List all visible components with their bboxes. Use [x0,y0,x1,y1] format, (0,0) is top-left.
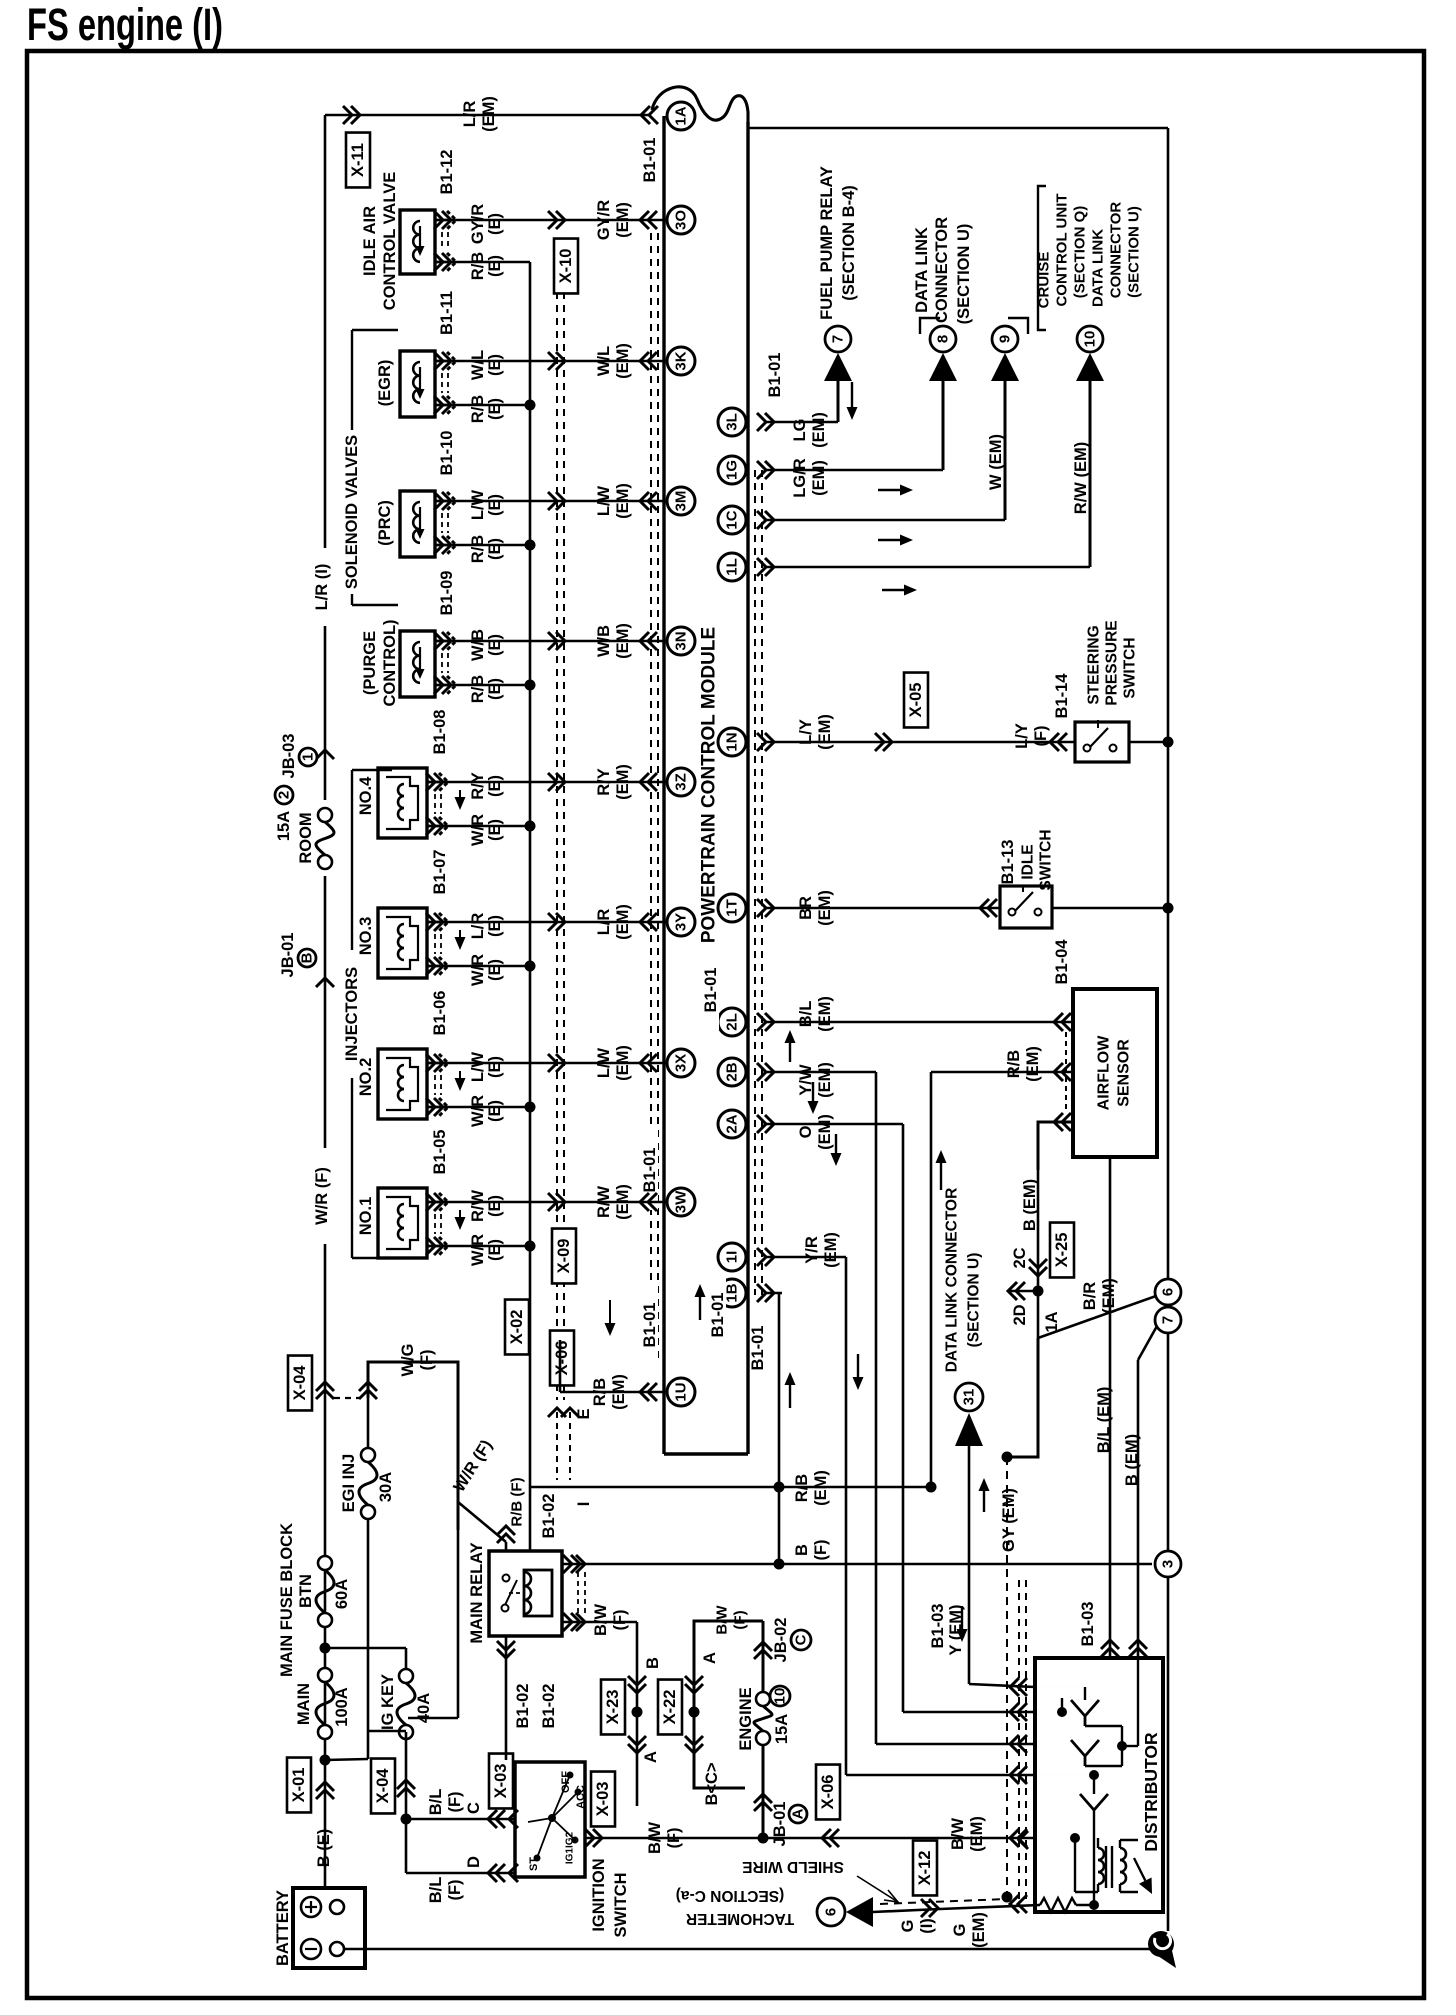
label R/Y (EM) NO.4 [595,764,632,800]
dashed shield GY (EM) [1006,1457,1008,1897]
svg-text:(EM): (EM) [816,996,834,1032]
main feed wire from battery (vertical) [324,115,327,1766]
svg-text:31: 31 [961,1389,978,1406]
wire GY/R (E) top [435,219,664,222]
wire B/L (F) to pin D [406,1872,515,1875]
wire L/R (EM) top [325,114,650,117]
connector box X-05 [904,673,928,728]
arrow dir 2L [785,1030,796,1062]
label GY/R (EM) [595,200,632,240]
chevrons BL dist [1101,1640,1119,1657]
relay feed diagonal W/R [458,1502,506,1551]
svg-text:R/B: R/B [469,252,487,281]
svg-text:R/B: R/B [1005,1050,1023,1079]
PCM left bus line [662,116,665,1454]
svg-text:CONTROL UNIT: CONTROL UNIT [1054,193,1071,306]
svg-text:NO.1: NO.1 [357,1197,375,1236]
distributor box [1035,1658,1163,1912]
wire engine fuse column [762,1621,765,1838]
arrow dir on YR [853,1354,864,1390]
label W (EM) [987,434,1005,490]
label 2C [1011,1247,1029,1268]
junction dot X-25 [1033,1286,1044,1297]
svg-text:D: D [465,1856,483,1868]
chevrons into bus NO.1 [640,1193,657,1211]
wire R/B (E) bottom [435,400,536,411]
ground symbol [1148,1931,1176,1968]
label Y (EM) [947,1604,965,1655]
svg-text:(E): (E) [486,678,504,700]
wire B (EM) X-25 column [1037,1170,1040,1291]
svg-text:R/W (EM): R/W (EM) [1072,442,1090,514]
chevron B/W at X-06 [822,1829,839,1847]
label A upper [701,1652,719,1664]
connector dashes NO.1 [435,1214,441,1234]
svg-text:10: 10 [772,1688,789,1705]
svg-text:W/L: W/L [469,350,487,380]
bracket cruise [1038,186,1046,330]
svg-text:CONTROL): CONTROL) [381,619,399,706]
junction dot GY bottom [1002,1892,1013,1903]
arrow direction DLC8 [878,485,913,496]
label B1-13 [999,840,1017,885]
wire R/B into airflow [931,1071,1073,1074]
svg-text:B1-01: B1-01 [702,968,720,1013]
chevrons X-22 upper [685,1676,703,1693]
svg-text:(SECTION U): (SECTION U) [966,1253,983,1348]
wire B/L pin 2L [757,1013,1073,1031]
label L/W (E) [469,489,504,520]
label W/L (E) [469,350,504,380]
svg-text:B1-06: B1-06 [431,991,449,1036]
svg-text:GY/R: GY/R [469,204,487,244]
label B upper [644,1657,662,1669]
svg-text:CRUISE: CRUISE [1036,252,1053,309]
svg-text:X-02: X-02 [508,1310,526,1345]
svg-text:X-04: X-04 [374,1768,392,1804]
wire L/W (E) NO.2 [427,1062,664,1065]
wire X-22 column [694,1621,763,1788]
label CRUISE CONTROL UNIT (SECTION Q) DATA LINK CONNECTOR (SECTION U) [1036,193,1143,308]
svg-text:W/R: W/R [469,954,487,986]
chevrons injector top NO.2 [426,1054,448,1072]
svg-text:B1-10: B1-10 [438,431,456,476]
ignition contact labels [528,1771,587,1871]
svg-text:A: A [790,1808,807,1819]
svg-text:INJECTORS: INJECTORS [343,967,361,1061]
wire to battery [324,1760,327,1888]
svg-text:(EM): (EM) [614,1045,632,1081]
wire DLC31 down [969,1446,1035,1687]
svg-text:X-05: X-05 [907,683,925,718]
PCM pin 3X [667,1049,695,1077]
svg-text:3L: 3L [724,413,741,431]
chevrons X-25 [1029,1259,1047,1276]
PCM bus bottom connector [664,1452,748,1455]
wire W/R (E) NO.2 [427,1102,536,1113]
label W/G (F) [399,1344,436,1377]
svg-text:R/B: R/B [793,1474,811,1503]
svg-text:R/B: R/B [591,1378,609,1407]
wire W/R (E) NO.1 [427,1241,536,1252]
label R/B (E) b [469,252,504,281]
svg-text:NO.4: NO.4 [357,776,375,815]
svg-text:MAIN RELAY: MAIN RELAY [468,1542,486,1643]
ignition output wire B/W (F) [585,1837,637,1840]
svg-text:1: 1 [300,753,317,761]
svg-text:1I: 1I [724,1251,741,1264]
svg-text:2L: 2L [724,1013,741,1031]
svg-text:JB-03: JB-03 [280,734,298,779]
label B1-14 [1053,673,1071,719]
svg-text:B: B [299,952,316,963]
mid chevrons NO.3 [548,913,565,931]
svg-text:B1-01: B1-01 [749,1326,767,1371]
chevrons X-23 upper [628,1676,646,1693]
connector box X-25 [1050,1223,1074,1278]
connector box X-23 [601,1680,625,1735]
svg-text:B1-01: B1-01 [766,353,784,398]
label B1-03 right [1079,1602,1097,1647]
svg-text:B1-03: B1-03 [929,1604,947,1649]
PCM pin 2A [718,1110,746,1138]
bracket DLC 8-9 [920,318,1028,334]
chevron G X-12 [921,1899,938,1917]
wire Y/W pin 2B [757,1063,876,1081]
arrow direction NO.3 [455,930,466,950]
label B1-01 [641,1130,659,1210]
bracket INJECTORS [352,770,392,1258]
wire EGI INJ feed [368,1362,458,1530]
injector NO.3 body [378,908,448,978]
svg-text:LG/R: LG/R [791,458,809,497]
mid chevrons (EGR) [548,352,565,370]
svg-text:1N: 1N [724,732,741,751]
label GY/R (E) [469,204,504,244]
PCM pin 1A [667,102,695,130]
label FUEL PUMP RELAY (SECTION B-4) [818,166,858,320]
wire 2A column down [903,1124,1035,1712]
connector X-04 link [316,1382,377,1399]
label BTN 60A [297,1574,351,1609]
svg-text:B1-02: B1-02 [540,1494,558,1539]
diagram title FS engine (I) [27,0,223,50]
svg-text:ENGINE: ENGINE [737,1687,755,1750]
arrow up near B1-01 [695,1284,706,1320]
svg-text:B/L: B/L [797,1001,815,1028]
svg-text:I: I [575,1502,593,1507]
label DISTRIBUTOR [1141,1732,1161,1852]
chevrons valve top (PRC) [434,492,456,510]
label B (EM) v [1123,1434,1141,1486]
label JB-01 (A) [771,1802,807,1847]
junction dot RB2 [926,1482,937,1493]
label R/B (F) inline [509,1477,526,1526]
chevrons valve bottom (EGR) [434,396,456,414]
svg-text:OFF: OFF [560,1771,572,1793]
label B1-01 [702,950,720,1030]
label AIRFLOW SENSOR [1096,1035,1133,1111]
arrow direction NO.1 [455,1210,466,1230]
svg-text:(F): (F) [611,1609,629,1630]
fuse MAIN 100A [316,1668,334,1739]
label B1-02 bottom a [514,1684,532,1729]
connector box X-01 [287,1758,311,1813]
label (PRC) [376,500,394,546]
PCM pin 3O [667,206,695,234]
label B1-04 [1053,939,1071,985]
chevrons JB column [754,1794,772,1811]
fuse ROOM 15A [312,800,338,876]
svg-text:B/L (EM): B/L (EM) [1095,1387,1113,1454]
label Y/W (EM) [797,1062,834,1098]
wire R/Y (E) NO.4 [427,781,664,784]
svg-text:W/R: W/R [469,1234,487,1266]
connector box X-04 lower [371,1759,395,1814]
svg-text:(EM): (EM) [810,412,828,448]
PCM right bus line [746,122,749,1454]
svg-text:(EM): (EM) [810,460,828,496]
svg-text:B/W: B/W [714,1605,731,1635]
arrow direction fuel pump [847,382,858,420]
connector dashes (PURGE CONTROL) [442,653,448,673]
chevrons into bus (PURGE CONTROL) [640,632,657,650]
label pin D [465,1856,483,1868]
svg-text:IG1IG2: IG1IG2 [565,1831,576,1864]
svg-text:IGNITION: IGNITION [590,1858,608,1931]
svg-text:B/L: B/L [427,1789,445,1816]
connector box X-06 lower [816,1765,840,1820]
solenoid valve (PRC) body [400,491,452,557]
svg-text:FUEL PUMP RELAY: FUEL PUMP RELAY [818,166,836,320]
label EGI INJ 30A [340,1454,395,1513]
pickup coil B [1071,1740,1099,1766]
label JB-01 (B) [279,933,316,978]
ignition switch box [515,1762,585,1877]
battery box [293,1888,365,1968]
svg-text:B/L: B/L [427,1877,445,1904]
svg-text:(EM): (EM) [614,764,632,800]
chevrons relay output bottom [563,1613,585,1631]
svg-text:B1-08: B1-08 [431,710,449,755]
svg-text:SWITCH: SWITCH [1122,637,1139,698]
svg-text:(EM): (EM) [816,1114,834,1150]
chevrons JB column upper [754,1642,772,1659]
label BR (EM) [797,890,834,926]
svg-text:NO.3: NO.3 [357,917,375,956]
svg-text:1G: 1G [724,460,741,480]
svg-text:R/W: R/W [595,1186,613,1219]
svg-text:60A: 60A [333,1579,351,1609]
label NO.1 [357,1197,375,1236]
svg-text:JB-02: JB-02 [772,1618,790,1663]
mid chevrons NO.2 [548,1054,565,1072]
svg-text:R/B: R/B [469,395,487,424]
svg-text:2D: 2D [1011,1304,1029,1325]
chevron on feed [316,750,334,759]
svg-text:X-25: X-25 [1053,1233,1071,1268]
wire airflow pin3 B(EM) [1038,1113,1073,1170]
relay output B (F) wire [562,1563,1152,1566]
label ENGINE 15A [737,1687,791,1750]
svg-text:IG KEY: IG KEY [379,1674,397,1730]
label B/L (F) lower [427,1877,464,1904]
svg-text:B1-14: B1-14 [1053,673,1071,719]
junction dot battery feed [320,1755,331,1766]
svg-text:(EGR): (EGR) [376,360,394,407]
svg-text:CONNECTOR: CONNECTOR [933,217,951,323]
pickup coil C [1080,1794,1108,1810]
label NO.2 [357,1058,375,1097]
svg-text:SENSOR: SENSOR [1116,1039,1133,1107]
connector box X-06 [550,1331,574,1386]
svg-text:8: 8 [935,335,952,343]
connector box X-03 left [489,1754,513,1809]
triangle DLC31 [955,1413,983,1446]
relay output B/W wire [562,1622,637,1806]
junction dot idle [1163,903,1174,914]
chevrons into bus (EGR) [640,352,657,370]
chevrons X-23 lower [628,1736,646,1753]
PCM pin 1G [718,456,746,484]
relay bottom pin [505,1636,508,1760]
arrow up on 1B line [785,1372,796,1408]
svg-text:(E): (E) [486,494,504,516]
label MAIN RELAY [468,1542,486,1643]
svg-text:SOLENOID VALVES: SOLENOID VALVES [343,435,361,589]
wire G dashed tacho [880,1899,1007,1904]
svg-text:B (EM): B (EM) [1021,1179,1039,1231]
svg-text:L/W: L/W [469,489,487,520]
chevrons 1U [640,1383,657,1401]
label NO.4 [357,776,375,815]
svg-text:B1-07: B1-07 [431,850,449,895]
label B1-05 [431,1130,449,1175]
label L/W (EM) [595,483,632,519]
label O (EM) [797,1114,834,1150]
label W/B (EM) [595,623,632,659]
svg-text:B1-01: B1-01 [641,1303,659,1348]
chevrons B/W into distributor [1010,1829,1027,1847]
chevrons Y into dist [1010,1678,1027,1696]
chevrons injector bottom NO.1 [426,1237,448,1255]
wire L/Y pin 1N [757,733,1075,751]
svg-text:(PURGE: (PURGE [361,631,379,695]
chevrons valve top (EGR) [434,352,456,370]
svg-text:W/B: W/B [469,629,487,661]
label B/W (EM) [949,1816,986,1852]
label MAIN 100A [295,1683,351,1727]
svg-text:B1-02: B1-02 [540,1684,558,1729]
svg-text:(E): (E) [486,1056,504,1078]
PCM pin 3M [667,487,695,515]
label JB-02 (C) [772,1618,811,1663]
resistor G wire [1040,1810,1099,1912]
battery ground wire [344,1948,1160,1951]
svg-text:X-12: X-12 [916,1851,934,1886]
svg-text:3M: 3M [673,491,690,512]
svg-text:C: C [465,1802,483,1814]
junction dot B/W [758,1833,769,1844]
wire W/B (E) top [435,640,664,643]
label B1-01 [749,1308,767,1388]
spark gap arrow [1134,1858,1152,1894]
mid chevrons IDLE AIR CONTROL VALVE [548,211,565,229]
bracket SOLENOID VALVES [352,330,398,605]
svg-text:(E): (E) [486,915,504,937]
wire 1I to dist [846,1774,1035,1777]
svg-text:(EM): (EM) [480,96,498,132]
connector dashes NO.2 [435,1075,441,1095]
svg-text:IDLE AIR: IDLE AIR [361,206,379,276]
label NO.3 [357,917,375,956]
inline label L/R (I) [312,548,338,626]
svg-text:GY/R: GY/R [595,200,613,240]
svg-text:B1-01: B1-01 [709,1293,727,1338]
svg-text:X-10: X-10 [557,249,575,284]
wire R/B (E) bottom [435,540,536,551]
svg-text:L/Y: L/Y [797,719,815,745]
label IGNITION SWITCH [590,1858,630,1937]
svg-text:R/W: R/W [469,1190,487,1223]
svg-text:(EM): (EM) [816,890,834,926]
label (PURGE CONTROL) [361,619,399,706]
svg-text:MAIN FUSE BLOCK: MAIN FUSE BLOCK [278,1523,296,1677]
label W/L (EM) [595,343,632,379]
dashed bundle valves/injectors [557,240,564,1400]
chevrons B dist [1129,1640,1147,1657]
label 2D [1011,1304,1029,1325]
svg-text:(F): (F) [1032,725,1050,746]
svg-text:MAIN: MAIN [295,1683,313,1725]
svg-text:15A: 15A [275,811,293,841]
svg-text:O: O [797,1125,815,1138]
svg-text:(E): (E) [486,538,504,560]
svg-text:(EM): (EM) [816,1062,834,1098]
wire R/B up to airflow [930,1072,933,1487]
label W/B (E) [469,629,504,661]
distributor pickup wiring [1035,1658,1138,1794]
svg-text:B1-12: B1-12 [438,150,456,195]
svg-text:SWITCH: SWITCH [1038,829,1055,890]
mid chevrons (PRC) [548,492,565,510]
svg-text:W (EM): W (EM) [987,434,1005,490]
svg-text:(PRC): (PRC) [376,500,394,546]
svg-text:W/R (F): W/R (F) [313,1167,331,1225]
svg-text:X-09: X-09 [555,1239,573,1274]
triangle to DLC 9 [991,353,1019,381]
svg-text:LG: LG [791,419,809,442]
svg-text:B<C>: B<C> [703,1762,721,1805]
chevrons G into dist [1010,1895,1027,1913]
main relay contact [502,1575,523,1612]
svg-text:(F): (F) [446,1791,464,1812]
solenoid valve IDLE AIR CONTROL VALVE body [400,210,452,274]
label LG (EM) [791,412,828,448]
chevrons relay output top [563,1555,585,1573]
wire R/B (E) bottom [435,680,536,691]
label Y/R (EM) [803,1232,840,1268]
svg-text:R/B: R/B [469,675,487,704]
svg-text:(E): (E) [486,255,504,277]
wire L/W (E) top [435,500,664,503]
label INJECTORS [343,967,361,1061]
PCM pin 1T [718,894,746,922]
svg-text:9: 9 [997,335,1014,343]
label IDLE SWITCH [1020,829,1055,890]
svg-text:X-06: X-06 [819,1775,837,1810]
wire EGI fuse column [367,1398,370,1731]
